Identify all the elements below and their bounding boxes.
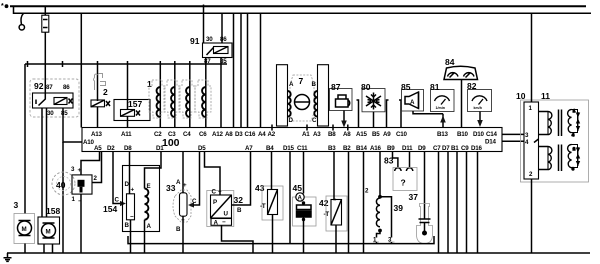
154 coil E [145, 189, 149, 220]
svg-text:D16: D16 [471, 145, 483, 152]
svg-text:?: ? [401, 178, 406, 188]
svg-text:7: 7 [299, 76, 304, 86]
injector 1 wire [159, 64, 161, 128]
ECU top pin labels [91, 131, 498, 138]
svg-text:A: A [410, 99, 415, 106]
svg-text:+: + [183, 182, 187, 189]
wire relay92 switch to motor 158 [41, 108, 43, 217]
svg-text:D1: D1 [156, 145, 164, 152]
svg-text:11: 11 [541, 91, 550, 101]
ignition switch 2 [91, 64, 110, 128]
svg-text:−: − [78, 198, 82, 205]
wire ECU C9 to ground [466, 152, 468, 254]
horn 85 [401, 82, 446, 128]
svg-text:D2: D2 [107, 145, 115, 152]
wire 45 to ground [303, 217, 305, 253]
svg-text:C7: C7 [433, 145, 441, 152]
pump choke right [314, 91, 317, 117]
pump choke left [288, 91, 291, 117]
wire 84 to ECU B10 [461, 80, 463, 128]
svg-text:43: 43 [255, 183, 265, 193]
speedometer 82 [467, 81, 492, 127]
coil 11 primary 1 [539, 112, 549, 135]
svg-text:C2: C2 [154, 131, 162, 138]
svg-text:C11: C11 [297, 145, 308, 152]
svg-text:C10: C10 [396, 131, 408, 138]
pump housing [290, 75, 314, 121]
svg-text:85: 85 [401, 82, 411, 92]
MAP sensor 32 [205, 152, 254, 254]
svg-text:154: 154 [103, 204, 117, 214]
svg-text:B: B [176, 226, 181, 233]
svg-text:A: A [214, 220, 219, 227]
svg-text:A: A [298, 195, 303, 202]
svg-text:D14: D14 [485, 139, 497, 146]
svg-text:D5: D5 [198, 145, 206, 152]
wire 33 pin C to ECU [188, 202, 194, 207]
wire pin 2 to ECU [93, 152, 102, 183]
canister valve 87 [330, 82, 353, 128]
pump motor [295, 95, 310, 110]
injector group 1 [147, 58, 211, 128]
relay 157 [114, 64, 150, 128]
svg-text:A15: A15 [356, 131, 368, 138]
svg-text:-T: -T [324, 211, 330, 218]
svg-text:91: 91 [190, 36, 200, 46]
svg-text:A2: A2 [268, 131, 276, 138]
coolant temp sensor 43 [255, 152, 283, 254]
svg-text:A12: A12 [212, 131, 224, 138]
svg-text:C3: C3 [168, 131, 176, 138]
svg-text:1: 1 [147, 79, 152, 89]
svg-text:87: 87 [331, 82, 341, 92]
svg-text:B13: B13 [437, 131, 449, 138]
svg-text:km/h: km/h [474, 106, 482, 110]
wire ECU D11 to 83 [409, 152, 411, 169]
svg-text:B9: B9 [387, 145, 395, 152]
wire relay92 pin30 to motor 158 [46, 108, 48, 217]
wire ECU D5 to 32 pin C [205, 152, 221, 196]
wire ECU B2 to ground [348, 152, 350, 254]
wire ECU B3 to 42 [334, 152, 336, 200]
svg-text:86: 86 [220, 36, 227, 43]
svg-text:30: 30 [206, 36, 213, 43]
svg-text:+: + [218, 189, 222, 196]
svg-text:A8: A8 [225, 131, 233, 138]
svg-text:C16: C16 [245, 131, 257, 138]
ignition module 10 [516, 13, 589, 253]
svg-text:D8: D8 [124, 145, 132, 152]
svg-text:B2: B2 [343, 145, 351, 152]
wire bus2 to ECU corner A13 area [80, 13, 82, 127]
wire bus2 +15 supply [14, 6, 592, 13]
relay 91 [190, 5, 232, 66]
injector 3 coil [186, 87, 190, 117]
svg-text:−: − [222, 219, 226, 226]
wire ECU A5 to pin 3 [81, 152, 100, 175]
wire 42 to ground [335, 225, 337, 253]
wire 32 pin A to ground [222, 225, 254, 253]
svg-text:B: B [312, 81, 317, 88]
relay box pin stubs [28, 61, 190, 67]
wire 80 right to ECU A9 [387, 100, 389, 128]
engine boundary bottom [128, 236, 434, 244]
coil 11 core 1 [559, 110, 562, 137]
svg-text:B3: B3 [328, 145, 336, 152]
injector 2 wire [174, 64, 176, 128]
fuse F [42, 6, 49, 64]
svg-text:C14: C14 [486, 131, 498, 138]
wire 82 to ECU D10 with arrow [479, 112, 481, 121]
wire bus1 +30 supply [10, 5, 586, 7]
pump rail left [277, 65, 288, 126]
svg-text:B: B [237, 207, 242, 214]
svg-text:A4: A4 [258, 131, 266, 138]
svg-text:D: D [125, 181, 130, 188]
ECU pin ticks [272, 125, 348, 131]
injector 4 wire [205, 58, 207, 128]
wire bus2 to ECU D3 [240, 13, 242, 127]
injector 3 wire [189, 64, 191, 128]
svg-text:M: M [22, 226, 27, 233]
svg-text:C: C [115, 197, 120, 204]
svg-text:A: A [176, 179, 181, 186]
svg-text:4: 4 [572, 133, 574, 137]
39 pickup coil [376, 198, 380, 227]
ground symbol [4, 253, 12, 261]
air temp sensor 42 [319, 152, 347, 254]
relay 92 [30, 64, 79, 117]
svg-text:40: 40 [56, 180, 66, 190]
tachometer 81 [430, 82, 454, 112]
svg-text:B14: B14 [356, 145, 368, 152]
coil 11 secondary 1 [568, 110, 572, 133]
svg-text:A1: A1 [302, 131, 310, 138]
svg-text:87: 87 [46, 84, 53, 91]
svg-text:C4: C4 [183, 131, 191, 138]
injector housings [149, 80, 211, 118]
terminal 15 ignition clip [19, 13, 24, 30]
ground bus [7, 252, 590, 254]
TDC sensor 37 [409, 152, 433, 244]
svg-text:U: U [224, 211, 229, 218]
injector 4 coil [202, 87, 206, 117]
wire 85 to ECU B13 [413, 111, 443, 128]
svg-text:C: C [192, 198, 197, 205]
wire bus2 to ECU A8 [233, 13, 235, 127]
svg-text:D10: D10 [473, 131, 485, 138]
svg-text:P: P [213, 199, 217, 206]
wire ECU A7 to 32 pin B [232, 152, 251, 206]
wire pin 1 to ground [80, 194, 82, 253]
svg-text:87: 87 [204, 58, 211, 65]
svg-text:84: 84 [445, 57, 455, 67]
svg-text:D9: D9 [418, 145, 426, 152]
ECU bottom pin labels [94, 145, 483, 152]
svg-text:86: 86 [63, 84, 70, 91]
svg-text:A11: A11 [121, 131, 132, 138]
svg-text:C: C [312, 117, 317, 124]
svg-text:B5: B5 [372, 131, 380, 138]
svg-text:C: C [212, 189, 217, 196]
instrument cluster 84 [444, 57, 478, 128]
39 shield wire [380, 197, 392, 233]
svg-text:D3: D3 [235, 131, 243, 138]
svg-text:3: 3 [572, 167, 574, 171]
svg-text:30: 30 [47, 110, 54, 117]
wire ECU D15 down [289, 152, 291, 244]
svg-text:D11: D11 [402, 145, 413, 152]
svg-text:+: + [131, 187, 135, 194]
wire 33 pin B to ground [182, 216, 184, 253]
svg-text:−: − [130, 214, 134, 221]
svg-text:B4: B4 [266, 145, 274, 152]
svg-text:B8: B8 [328, 131, 336, 138]
crankshaft sensor 39 [365, 152, 403, 244]
wire bus2 to ECU C16 [247, 13, 249, 127]
svg-text:D: D [289, 117, 294, 124]
wire 80 centre to ECU B5 [373, 112, 375, 128]
svg-text:M: M [46, 229, 51, 236]
wire 43 to ground [272, 215, 274, 254]
wire ECU D9 to 37 [424, 152, 426, 220]
svg-text:32: 32 [234, 195, 244, 205]
wire 87 to ECU A8 with arrow [343, 111, 345, 122]
svg-text:10: 10 [516, 91, 526, 101]
ignition coil 11 [539, 109, 581, 171]
wire ECU D1 to 154 coil E [145, 152, 162, 189]
snowflake icon [366, 93, 381, 110]
wire ECU D14 to module 10 pin4 [502, 140, 524, 142]
svg-text:1: 1 [573, 109, 575, 113]
svg-text:B1: B1 [451, 145, 459, 152]
svg-text:45: 45 [293, 183, 303, 193]
wire ECU C7 to ground [438, 152, 440, 254]
svg-text:3: 3 [14, 200, 19, 210]
pump motor 158 [38, 206, 60, 253]
ECU 100 [82, 125, 502, 153]
svg-text:1/min: 1/min [436, 106, 445, 110]
svg-text:39: 39 [394, 203, 404, 213]
svg-text:A3: A3 [313, 131, 321, 138]
wire ECU A16 to 39 [379, 152, 381, 199]
svg-text:D15: D15 [283, 145, 295, 152]
wire ECU C11 to 45 [303, 152, 305, 194]
svg-text:A: A [289, 81, 294, 88]
wire ECU B4 to 43 [271, 152, 273, 190]
svg-text:85: 85 [61, 110, 68, 117]
wire ECU B9 to 83 [393, 152, 398, 169]
svg-text:80: 80 [361, 82, 371, 92]
svg-text:81: 81 [430, 82, 440, 92]
node battery dot [5, 4, 9, 8]
svg-text:A9: A9 [383, 131, 391, 138]
svg-text:100: 100 [162, 137, 180, 149]
svg-text:C9: C9 [461, 145, 469, 152]
svg-text:A: A [147, 223, 152, 230]
wire ECU D7 to ground [447, 152, 449, 254]
wire relay91 pin85 to ECU A12 [220, 58, 222, 128]
idle actuator 40 [52, 152, 102, 254]
fuel pump 7 [277, 65, 329, 126]
wire 154 pin B to ground [130, 220, 132, 253]
coil 11 core 2 [559, 145, 562, 172]
throttle potentiometer 33 [166, 152, 200, 254]
svg-text:157: 157 [128, 99, 142, 109]
svg-text:82: 82 [467, 81, 477, 91]
svg-text:92: 92 [34, 81, 44, 91]
wire relay92 pin85 to ECU A10 [63, 108, 82, 142]
svg-text:33: 33 [166, 183, 176, 193]
svg-text:A8: A8 [343, 131, 351, 138]
svg-text:B10: B10 [457, 131, 469, 138]
wire module 10 pin2 to ground [531, 179, 533, 253]
svg-text:37: 37 [409, 192, 419, 202]
wire 80 left to ECU A15 [357, 100, 359, 128]
relay box top edge [25, 63, 227, 65]
svg-text:2: 2 [103, 87, 108, 97]
AC compressor 80 [357, 82, 389, 128]
svg-text:A13: A13 [91, 131, 103, 138]
svg-text:2: 2 [573, 147, 575, 151]
knock sensor 45 [293, 152, 317, 254]
coil 11 spark output 2 [577, 147, 579, 166]
injector 1 coil [157, 87, 161, 117]
svg-text:158: 158 [46, 206, 60, 216]
svg-text:-T: -T [260, 203, 266, 210]
wire ECU D8 to 154 pin D [129, 152, 131, 194]
svg-text:A16: A16 [370, 145, 382, 152]
wire ECU to 33 pin A [182, 152, 184, 193]
wire relay-box left edge down to motor 3 [24, 64, 26, 214]
wire ECU D16 to ground [477, 152, 479, 254]
coil 11 spark output 1 [577, 112, 579, 131]
wire bus2 to ECU A4 [260, 13, 262, 127]
svg-text:D7: D7 [442, 145, 450, 152]
svg-text:A10: A10 [83, 139, 95, 146]
wire to ECU C10 [399, 100, 401, 128]
svg-text:A5: A5 [94, 145, 102, 152]
pump rail right [318, 65, 329, 126]
wire ECU B1 to ground [456, 152, 458, 254]
svg-text:A7: A7 [245, 145, 253, 152]
coil 11 secondary 2 [568, 145, 572, 168]
svg-text:+: + [78, 167, 82, 174]
wire 154 pin A to ground [144, 220, 146, 253]
wire ECU D2 to 154 pin C [113, 152, 120, 204]
svg-text:B: B [125, 222, 130, 229]
injector 2 coil [171, 87, 175, 117]
wire ECU B14 to ground [363, 152, 365, 254]
svg-text:42: 42 [319, 198, 329, 208]
svg-text:*: * [1, 3, 4, 10]
wire coil ground [62, 142, 64, 253]
wiper motor 3 [14, 200, 35, 253]
lambda sensor 83 [384, 152, 417, 191]
coil 11 primary 2 [539, 147, 549, 170]
wire ECU C14 to module 10 pin3 [502, 133, 524, 135]
svg-text:C6: C6 [199, 131, 207, 138]
injection valve 154 [103, 152, 161, 254]
